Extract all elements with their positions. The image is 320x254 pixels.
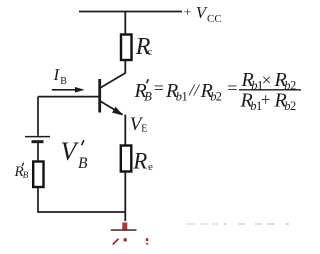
battery V'B long plate xyxy=(25,136,50,138)
label IB xyxy=(53,65,68,87)
label +VCC xyxy=(184,3,222,25)
label Rc xyxy=(135,34,152,60)
label VE xyxy=(130,114,148,135)
power rail +VCC xyxy=(79,11,182,13)
transistor Q1 emitter lead xyxy=(100,101,123,115)
formula fraction bar xyxy=(239,89,301,91)
svg-text:+: + xyxy=(184,5,192,20)
ground bar xyxy=(111,229,137,231)
svg-text:=: = xyxy=(227,78,237,98)
svg-text:B: B xyxy=(144,89,152,103)
svg-text://: // xyxy=(188,81,201,100)
resistor Re xyxy=(121,146,132,172)
svg-text:B: B xyxy=(78,155,88,172)
ground hatch 3 xyxy=(146,238,148,245)
wire Rc to collector xyxy=(124,60,126,74)
label V'B xyxy=(61,137,89,172)
wire bottom xyxy=(37,211,126,213)
wire rail to Rc xyxy=(124,11,126,35)
formula fraction numerator Rb1 x Rb2 xyxy=(241,69,297,93)
ground hatch 2 xyxy=(124,238,127,241)
svg-text:c: c xyxy=(147,46,152,58)
transistor Q1 emitter arrowhead xyxy=(112,107,123,116)
svg-text:=: = xyxy=(154,78,164,98)
label R'B xyxy=(14,163,29,180)
wire R'B to bottom xyxy=(37,187,39,212)
formula R'B = Rb1 // Rb2 xyxy=(134,78,238,103)
svg-text:R: R xyxy=(132,148,147,173)
resistor Rc xyxy=(121,35,132,61)
ground stub xyxy=(122,223,127,231)
svg-text:2: 2 xyxy=(216,89,222,103)
svg-text:×: × xyxy=(262,71,272,90)
current arrow IB xyxy=(52,87,85,93)
svg-text:B: B xyxy=(60,76,67,87)
resistor R'B xyxy=(33,162,43,188)
wire battery to R'B xyxy=(37,143,39,162)
transistor Q1 base bar xyxy=(98,79,101,113)
svg-text:CC: CC xyxy=(207,13,222,25)
ground hatch 1 xyxy=(113,239,119,245)
svg-text:2: 2 xyxy=(290,99,296,113)
svg-text:+: + xyxy=(261,90,271,110)
faded watermark dashes xyxy=(186,223,289,225)
svg-text:I: I xyxy=(53,65,61,84)
battery V'B short plate xyxy=(32,140,44,143)
transistor Q1 collector lead xyxy=(100,73,125,88)
wire left branch upper xyxy=(37,97,39,136)
wire Re to ground xyxy=(124,172,126,222)
svg-text:V: V xyxy=(61,137,80,166)
label Re xyxy=(132,148,153,173)
wire base xyxy=(38,96,99,98)
formula fraction denominator Rb1 + Rb2 xyxy=(240,89,297,112)
svg-text:B: B xyxy=(23,170,29,180)
svg-text:1: 1 xyxy=(182,89,188,103)
wire emitter vertical xyxy=(124,115,126,146)
svg-text:e: e xyxy=(148,161,153,173)
svg-text:E: E xyxy=(141,123,147,134)
